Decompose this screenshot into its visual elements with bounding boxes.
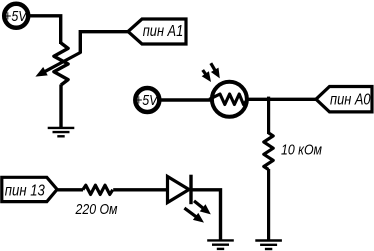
wire from +5V to photoresistor	[159, 98, 212, 101]
wire from tag to resistor 220 Om	[56, 188, 83, 191]
photoresistor light arrow 2	[211, 63, 220, 78]
ground (below LED)	[207, 240, 234, 249]
wire from wiper to tag pin A1	[80, 32, 128, 54]
power source +5V (top left)	[4, 4, 28, 28]
wire from junction down to resistor 10 kOm	[267, 97, 270, 134]
tag пин A1	[128, 19, 186, 44]
wire from resistor to LED anode	[113, 188, 167, 191]
svg-text:+5V: +5V	[135, 93, 159, 109]
wire from photoresistor to tag pin A0 (with junction node)	[247, 98, 316, 101]
resistor 220 Ом (zigzag)	[83, 185, 113, 194]
wire from +5V to potentiometer top	[28, 16, 61, 44]
wire from potentiometer bottom to ground	[59, 85, 62, 128]
LED light arrow 1	[194, 201, 211, 215]
potentiometer wiper arrow	[35, 53, 80, 77]
svg-text:+5V: +5V	[4, 9, 28, 25]
wire from resistor to ground	[267, 169, 270, 240]
ground (below potentiometer)	[48, 128, 75, 136]
svg-text:пин A1: пин A1	[143, 23, 184, 40]
tag пин A0	[316, 87, 372, 112]
photoresistor LDR circle	[212, 82, 247, 117]
photoresistor zigzag	[209, 94, 247, 105]
potentiometer body (variable resistor zigzag)	[54, 43, 68, 85]
LED cathode bar	[189, 175, 192, 205]
svg-text:пин A0: пин A0	[330, 92, 371, 109]
LED triangle (anode)	[168, 177, 190, 203]
svg-text:10 кОм: 10 кОм	[281, 143, 322, 159]
svg-text:пин 13: пин 13	[5, 182, 45, 199]
svg-text:220 Ом: 220 Ом	[75, 202, 118, 218]
LED light arrow 2	[184, 208, 204, 223]
wire from LED cathode to ground	[191, 190, 221, 240]
ground (below 10 kOm resistor)	[255, 241, 282, 250]
tag пин 13	[2, 177, 57, 201]
photoresistor light arrow 1	[202, 70, 211, 82]
resistor 10 кОм (zigzag)	[264, 133, 273, 170]
power source +5V (middle)	[135, 88, 159, 112]
